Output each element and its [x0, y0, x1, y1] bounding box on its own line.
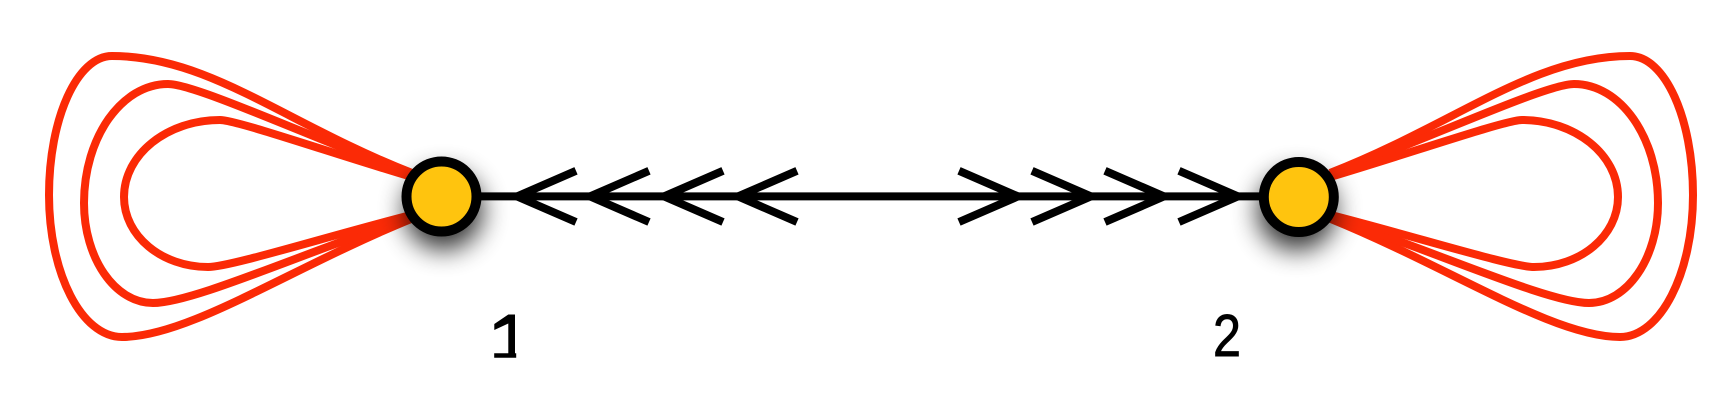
- arrowhead A1 pointing to node 1: [517, 171, 576, 222]
- node 2: [1264, 162, 1334, 232]
- arrowhead A2 pointing to node 1: [590, 171, 649, 222]
- node 2 shadow: [1260, 158, 1338, 236]
- arrowhead B4 pointing to node 2: [1179, 171, 1238, 222]
- arrowhead A3 pointing to node 1: [664, 171, 723, 222]
- node 1: [407, 162, 477, 232]
- self-loop R1 (outer) on node 2: [1330, 56, 1693, 337]
- label 1: [494, 315, 516, 358]
- node 1 shadow: [403, 158, 481, 236]
- arrowhead B1 pointing to node 2: [959, 171, 1018, 222]
- wire: edge between node 1 and node 2: [442, 192, 1299, 200]
- arrowhead B2 pointing to node 2: [1032, 171, 1091, 222]
- self-loop L1 (outer) on node 1: [49, 56, 412, 337]
- arrowhead B3 pointing to node 2: [1105, 171, 1164, 222]
- self-loop L2 (middle) on node 1: [84, 84, 412, 303]
- arrowhead A4 pointing to node 1: [738, 171, 797, 222]
- self-loop R2 (middle) on node 2: [1330, 84, 1658, 303]
- self-loop L3 (inner) on node 1: [124, 120, 412, 267]
- svg-text:2: 2: [1213, 303, 1241, 369]
- self-loop R3 (inner) on node 2: [1330, 120, 1618, 267]
